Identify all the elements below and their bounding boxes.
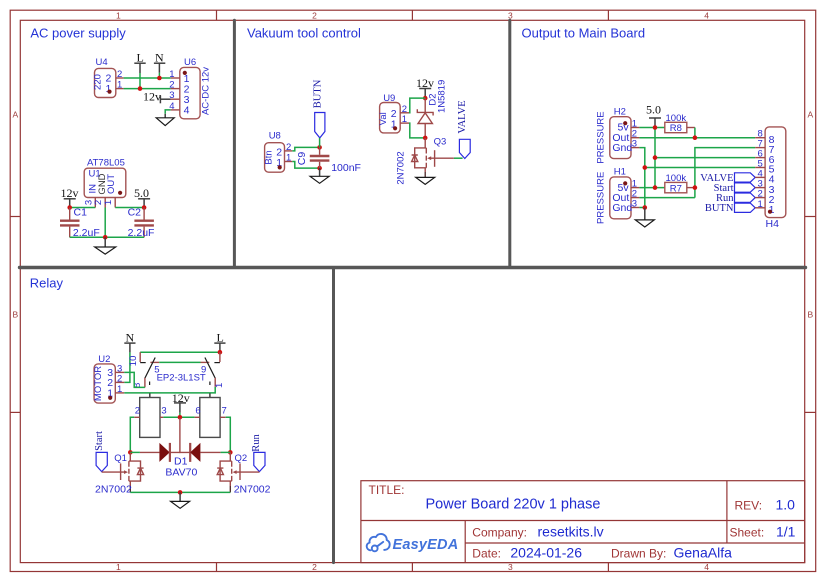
wire U1.2 to ground rail	[104, 208, 106, 238]
wire U8.1 to C9 bottom	[292, 162, 319, 169]
wire 5.0 vertical	[654, 128, 656, 188]
resistor R7	[665, 173, 695, 194]
wire U8.2 to C9 top	[292, 147, 319, 151]
svg-text:R8: R8	[670, 123, 682, 134]
svg-text:1: 1	[169, 69, 174, 80]
node ground junction	[178, 490, 183, 495]
node D2 top junction	[423, 96, 428, 101]
node 5.0/H1.1 junction	[653, 185, 658, 190]
svg-text:1: 1	[116, 562, 121, 572]
power flag N	[124, 330, 135, 352]
svg-text:1: 1	[117, 80, 122, 91]
wire U9.2 to D2 top	[409, 98, 425, 113]
svg-text:GenaAlfa: GenaAlfa	[674, 545, 733, 561]
wire source rail	[130, 491, 230, 493]
svg-text:A: A	[807, 110, 813, 120]
wire gndbus to H4.5	[645, 167, 755, 169]
svg-text:12v: 12v	[143, 90, 161, 104]
connector U2 MOTOR	[93, 354, 125, 403]
svg-text:L: L	[137, 51, 144, 65]
section divider horizontal	[20, 266, 806, 269]
ground H1	[635, 208, 654, 228]
svg-text:7: 7	[222, 406, 227, 417]
svg-text:3: 3	[161, 406, 166, 417]
svg-text:Q3: Q3	[434, 136, 447, 147]
capacitor C2	[128, 206, 155, 239]
svg-text:Start: Start	[94, 431, 105, 451]
svg-text:2N7002: 2N7002	[396, 151, 407, 184]
svg-text:2: 2	[312, 10, 317, 20]
svg-text:2: 2	[169, 80, 174, 91]
svg-text:N: N	[155, 51, 164, 65]
svg-text:REV:: REV:	[735, 499, 763, 513]
wire U4.1 to U6.2	[124, 88, 171, 90]
power flag 12v at D2	[416, 76, 434, 98]
svg-text:2N7002: 2N7002	[234, 483, 271, 495]
wire H4.7 to H1.2 vertical	[695, 148, 755, 198]
node 5.0/row6 junction	[653, 155, 658, 160]
svg-text:2024-01-26: 2024-01-26	[510, 545, 582, 561]
node Q1 drain junction	[128, 450, 133, 455]
ground C9	[310, 168, 329, 183]
svg-text:Sheet:: Sheet:	[730, 526, 765, 540]
svg-text:1.0: 1.0	[776, 497, 796, 513]
wire H2.1 to R8	[639, 127, 664, 129]
wire U9.1 to D2 bottom	[409, 123, 425, 138]
svg-text:4: 4	[704, 562, 709, 572]
EasyEDA logo	[367, 534, 390, 551]
net port Run	[251, 434, 265, 472]
svg-text:L: L	[217, 330, 224, 344]
svg-text:3: 3	[508, 10, 513, 20]
svg-text:10: 10	[128, 356, 139, 367]
wire 12v to U1.3	[70, 207, 96, 209]
wire H1.2 to vertical	[639, 197, 695, 199]
svg-text:R7: R7	[670, 183, 682, 194]
svg-text:BAV70: BAV70	[165, 467, 197, 479]
section divider vertical Relay/right	[332, 268, 335, 563]
node gndbus/row5 junction	[643, 165, 648, 170]
connector U6	[169, 57, 211, 119]
svg-text:Gnd: Gnd	[612, 202, 632, 214]
svg-text:1: 1	[758, 199, 763, 210]
svg-text:1: 1	[402, 114, 407, 125]
wire coil2 down to Q1 drain	[130, 417, 139, 452]
net port BUTN	[312, 79, 325, 147]
svg-text:1: 1	[103, 200, 114, 205]
wire coil7 down to Q2 drain	[220, 417, 230, 452]
svg-text:Power Board 220v 1 phase: Power Board 220v 1 phase	[426, 497, 601, 513]
svg-text:EP2-3L1ST: EP2-3L1ST	[157, 373, 206, 384]
svg-text:Btn: Btn	[263, 150, 274, 164]
svg-text:Vakuum tool control: Vakuum tool control	[247, 26, 361, 41]
power flag 5.0 at C2	[134, 186, 150, 208]
ground U6	[156, 114, 174, 126]
wire H1.1 to R7	[639, 187, 664, 189]
connector H4	[755, 127, 786, 230]
regulator U1 AT78L05	[83, 157, 125, 207]
relay coil left	[135, 393, 167, 437]
svg-text:2N7002: 2N7002	[95, 483, 132, 495]
section divider vertical AC/Vakuum	[233, 20, 236, 267]
wire U1.1 to 5.0	[115, 207, 144, 209]
svg-text:Relay: Relay	[30, 275, 64, 290]
ground relay	[171, 492, 190, 508]
node 5.0/H2.1 junction	[653, 125, 658, 130]
svg-text:Q1: Q1	[114, 453, 127, 464]
net port Run to H4.2	[716, 193, 755, 204]
svg-text:B: B	[12, 310, 18, 320]
node 12v junction	[67, 205, 72, 210]
svg-text:C9: C9	[296, 152, 308, 166]
connector H2	[596, 107, 640, 164]
svg-text:AC-DC 12v: AC-DC 12v	[201, 67, 212, 115]
node C9 top junction	[317, 145, 322, 150]
svg-text:3: 3	[632, 139, 637, 150]
svg-text:1/1: 1/1	[776, 524, 796, 540]
svg-text:2: 2	[135, 406, 140, 417]
svg-text:BUTN: BUTN	[705, 203, 734, 214]
svg-text:MOTOR: MOTOR	[93, 366, 104, 401]
svg-text:U4: U4	[96, 57, 108, 68]
node N junction	[157, 76, 162, 81]
power flag 12v coils	[172, 391, 190, 417]
svg-text:12v: 12v	[416, 76, 434, 90]
svg-text:Date:: Date:	[472, 547, 501, 561]
wire R8 right down to row8	[694, 128, 696, 138]
wire 5.0 to H4.6	[655, 157, 755, 159]
svg-text:2: 2	[312, 562, 317, 572]
capacitor C9	[296, 147, 361, 174]
power flag N	[154, 51, 165, 79]
transistor Q1 2N7002	[95, 452, 144, 495]
wire H1.3 to gnd	[639, 207, 644, 209]
svg-text:U8: U8	[269, 130, 281, 141]
wire L row to relay pins 10,4	[140, 351, 220, 353]
node C9 bottom junction	[317, 166, 322, 171]
wire ground rail C1-C2	[70, 236, 144, 238]
wire H2.3 to gnd bus	[639, 148, 644, 208]
net port Start to H4.3	[714, 183, 756, 194]
wire H2.2 to H4.8	[639, 137, 755, 139]
svg-text:Drawn By:: Drawn By:	[611, 547, 666, 561]
svg-text:1N5819: 1N5819	[437, 80, 448, 113]
svg-text:U6: U6	[184, 57, 196, 68]
node R8/row8 junction	[693, 135, 698, 140]
node Q2 drain junction	[228, 450, 233, 455]
node R7/vertical junction	[693, 185, 698, 190]
power flag 12v at C1	[61, 186, 79, 208]
svg-text:AT78L05: AT78L05	[87, 157, 125, 168]
title block frame	[361, 481, 805, 563]
svg-text:4: 4	[704, 10, 709, 20]
svg-text:B: B	[807, 310, 813, 320]
section divider vertical Vakuum/Output	[508, 20, 511, 267]
ground U1	[95, 237, 116, 254]
connector U4	[93, 57, 124, 97]
transistor Q3 2N7002	[396, 136, 454, 184]
svg-text:C1: C1	[74, 206, 88, 218]
node L junction	[138, 86, 143, 91]
wire U4.2 to U6.1	[124, 77, 171, 79]
svg-text:Gnd: Gnd	[612, 142, 632, 154]
connector H1	[596, 167, 640, 224]
net port VALVE to H4.4	[700, 173, 755, 184]
svg-text:Run: Run	[251, 434, 262, 452]
node L junction	[218, 350, 223, 355]
svg-text:1: 1	[117, 384, 122, 395]
wire relay pin1 to U2.1	[124, 387, 215, 393]
svg-text:N: N	[126, 330, 135, 344]
svg-text:Output to Main Board: Output to Main Board	[522, 26, 646, 41]
svg-text:PRESSURE: PRESSURE	[596, 111, 607, 163]
node 12v junction	[178, 415, 183, 420]
net port VALVE	[457, 100, 470, 158]
svg-text:1: 1	[116, 10, 121, 20]
svg-text:AC pover supply: AC pover supply	[30, 26, 126, 41]
connector U8	[263, 130, 292, 172]
svg-text:A: A	[12, 110, 18, 120]
wire Q3 gate to VALVE	[454, 157, 463, 159]
ground Q3	[416, 177, 435, 184]
wire U6.4 to ground	[165, 110, 171, 114]
svg-text:H4: H4	[766, 218, 780, 230]
svg-text:5.0: 5.0	[646, 103, 661, 117]
svg-text:6: 6	[195, 406, 200, 417]
diode D1 BAV70	[130, 418, 230, 479]
svg-text:2: 2	[117, 373, 122, 384]
svg-text:OUT: OUT	[106, 174, 117, 194]
svg-text:TITLE:: TITLE:	[369, 483, 405, 497]
svg-text:12v: 12v	[61, 186, 79, 200]
svg-text:Company:: Company:	[472, 526, 527, 540]
svg-text:5.0: 5.0	[134, 186, 149, 200]
svg-text:EasyEDA: EasyEDA	[393, 537, 459, 553]
svg-text:Val: Val	[378, 112, 389, 125]
svg-text:1: 1	[286, 153, 291, 164]
power flag L	[214, 330, 225, 352]
net port Start	[94, 431, 108, 472]
node D2 bottom junction	[423, 136, 428, 141]
svg-text:H1: H1	[614, 167, 626, 178]
svg-text:Q2: Q2	[235, 453, 248, 464]
connector U9	[378, 93, 409, 133]
svg-text:3: 3	[508, 562, 513, 572]
svg-text:3: 3	[632, 199, 637, 210]
diode D2 1N5819	[417, 80, 447, 138]
svg-text:2: 2	[286, 142, 291, 153]
wire coil3 to coil6 via 12v	[160, 416, 200, 418]
resistor R8	[665, 113, 695, 134]
svg-text:C2: C2	[128, 206, 142, 218]
node 5.0 junction	[142, 205, 147, 210]
svg-text:BUTN: BUTN	[312, 79, 323, 108]
svg-text:resetkits.lv: resetkits.lv	[538, 524, 604, 540]
power flag L	[134, 51, 145, 89]
svg-text:220: 220	[93, 74, 104, 90]
net port BUTN to H4.1	[705, 203, 755, 214]
relay coil right	[195, 393, 226, 437]
svg-text:2: 2	[117, 69, 122, 80]
svg-text:100nF: 100nF	[331, 162, 361, 174]
relay K contacts EP2-3L1ST	[128, 352, 225, 388]
svg-text:VALVE: VALVE	[457, 100, 468, 133]
capacitor C1	[60, 206, 100, 239]
power flag 12v at U6.3	[143, 90, 171, 104]
power flag 5.0	[646, 103, 661, 128]
wire U2.3 to relay pin8	[124, 372, 145, 387]
svg-text:H2: H2	[614, 107, 626, 118]
svg-text:PRESSURE: PRESSURE	[596, 172, 607, 224]
svg-text:4: 4	[184, 105, 190, 117]
wire N down to U2.2	[124, 352, 130, 382]
transistor Q2 2N7002	[217, 452, 270, 495]
node ground rail junction	[103, 235, 108, 240]
node gndbus/H1.3 junction	[643, 205, 648, 210]
